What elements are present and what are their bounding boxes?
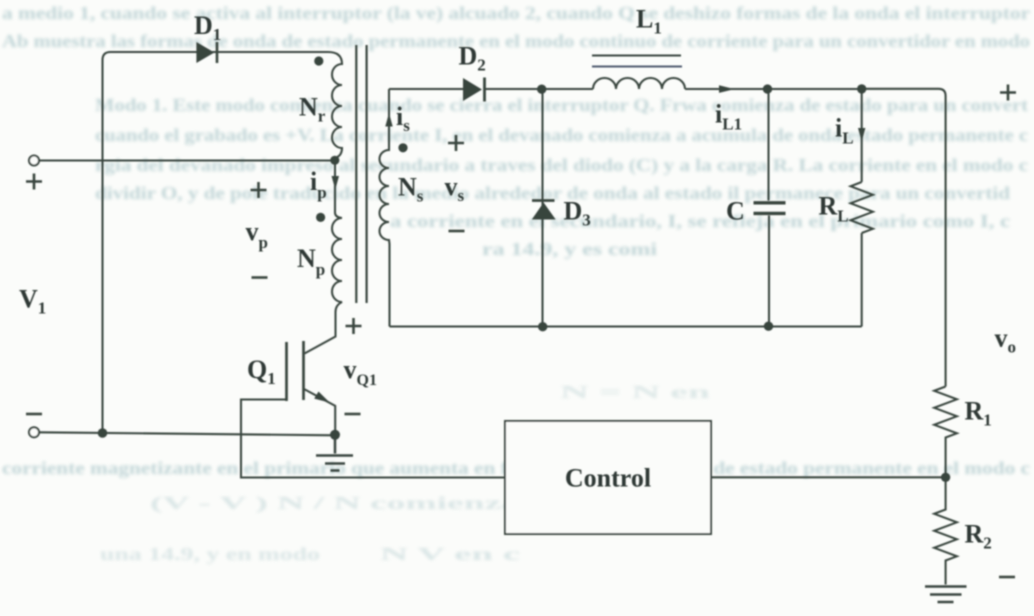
control box [505,421,711,534]
svg-text:C: C [726,197,745,226]
terminal + input top [29,156,39,166]
node dot polarity Nr [314,56,323,65]
wire D2 to node [485,88,594,90]
minus sign output right [999,576,1015,579]
svg-text:iL: iL [835,114,854,148]
wire middle horizontal from + terminal to transformer junction [39,159,335,161]
svg-text:Np: Np [297,244,325,279]
svg-text:Ns: Ns [398,173,424,206]
svg-text:ra 14.9, y es comi: ra 14.9, y es comi [482,239,657,259]
minus sign vp [252,276,268,279]
plus sign vs [448,135,464,151]
node divider [941,473,950,482]
minus sign input left [26,413,42,416]
svg-text:a corriente en el secundario,: a corriente en el secundario, I, se refl… [390,211,1010,231]
svg-text:vp: vp [246,217,268,252]
transformer winding Nr [328,52,342,160]
svg-text:N V en c: N V en c [380,544,520,564]
wire gate loop to control [241,400,505,478]
diode D2 [463,78,485,102]
svg-text:R2: R2 [965,520,992,553]
node junction bottom-left [98,428,108,438]
svg-text:R1: R1 [965,397,992,430]
plus sign output right [1000,85,1016,101]
wire primary lead with ip arrow [335,160,342,218]
svg-text:cuando el grabado es +V. La c: cuando el grabado es +V. La corriente I,… [95,125,1028,145]
resistor R1 [934,387,957,478]
svg-text:vs: vs [445,172,465,205]
svg-text:(V - V ) N / N comienza: (V - V ) N / N comienza [150,493,520,514]
minus sign vs [449,230,465,233]
wire D3 branch vertical [541,89,543,326]
wire secondary top to D2 [389,88,463,90]
node dot polarity Ns [398,143,407,152]
is arrow [385,113,392,127]
plus sign vp [251,182,267,198]
inductor L1 core lines [592,56,682,67]
node RL top [857,84,866,93]
svg-text:Ab muestra las formas de onda: Ab muestra las formas de onda de estado … [2,31,1030,51]
ground under R2 [925,587,967,603]
svg-text:Control: Control [565,464,651,493]
plus sign vQ1 [346,318,362,334]
capacitor C [754,94,786,327]
minus sign vQ1 [345,413,361,416]
node D2 output [537,85,546,94]
wire C node to RL node [768,88,862,90]
node D3 bottom [538,322,547,331]
svg-text:a medio 1, cuando se activa al: a medio 1, cuando se activa al interrupt… [2,3,1030,24]
node dot polarity Np [316,213,325,222]
svg-text:vo: vo [995,324,1017,357]
svg-text:V1: V1 [19,285,46,318]
wire bottom input rail [39,432,335,435]
diode D1 [196,42,217,63]
inductor L1 [593,78,685,89]
wire left vertical rail and top wire [103,52,329,433]
terminal - input bottom [29,427,39,437]
transformer winding Np [305,218,343,354]
wire L1 to C node with iL1 arrow [685,88,768,90]
resistor RL with iL arrow [851,89,873,327]
svg-text:N = N en: N = N en [560,382,710,402]
mosfet Q1 [287,341,336,435]
node C bottom [764,322,773,331]
svg-text:vQ1: vQ1 [344,355,377,389]
wire RL node to right corner down to R1 [862,89,946,387]
wire output bottom rail [390,325,862,327]
plus sign input left [26,174,42,190]
svg-text:una 14.9, y en modo: una 14.9, y en modo [100,544,320,564]
node junction primary center tap [330,156,339,165]
transformer winding Ns [380,89,390,327]
diode D3 [532,201,556,220]
svg-text:Q1: Q1 [247,355,276,388]
resistor R2 [934,477,957,584]
ground under Q1 [316,435,353,471]
wire control to divider node [711,476,946,478]
svg-text:rgia del devanado impreso al s: rgia del devanado impreso al secundario … [95,155,1028,176]
node C top [763,84,772,93]
node source junction [330,430,340,440]
transformer core [356,45,366,303]
svg-text:Modo 1. Este modo comienza cu: Modo 1. Este modo comienza cuando se cie… [95,95,1028,115]
